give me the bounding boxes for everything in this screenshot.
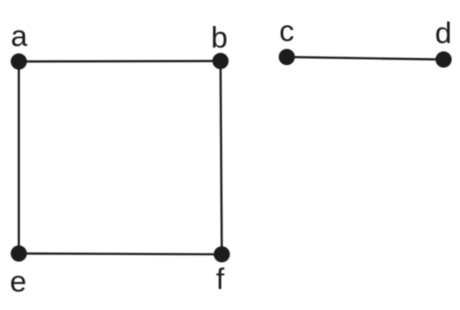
svg-text:c: c	[279, 15, 294, 48]
svg-text:b: b	[211, 22, 228, 55]
svg-text:e: e	[10, 265, 27, 298]
svg-text:f: f	[216, 263, 225, 296]
svg-text:d: d	[435, 17, 452, 50]
svg-text:a: a	[11, 20, 28, 53]
